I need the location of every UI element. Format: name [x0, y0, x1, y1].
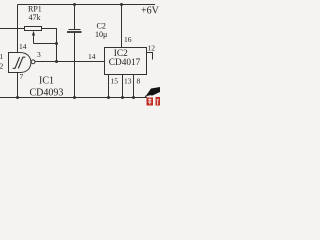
node output junction [55, 60, 58, 63]
gate IC1 CD4093 schmitt NAND [9, 53, 36, 73]
svg-text:47k: 47k [29, 13, 41, 22]
node dots [16, 3, 135, 99]
wire IC2 pin12 stub [147, 53, 153, 60]
node C2 top [73, 3, 76, 6]
wire IC2 pin13 to ground [122, 75, 124, 98]
wire wiper to node [34, 43, 57, 45]
svg-text:2: 2 [0, 62, 4, 71]
svg-text:14: 14 [19, 42, 27, 51]
IC2 CD4017 box [105, 48, 147, 75]
svg-text:+6V: +6V [141, 6, 160, 17]
wire ground bottom rail [0, 97, 147, 99]
svg-text:13: 13 [124, 77, 132, 86]
svg-text:8: 8 [137, 77, 141, 86]
svg-text:3: 3 [37, 50, 41, 59]
node pin7 ground [16, 96, 19, 99]
wire IC2 pin8 to ground [133, 75, 135, 98]
wire +6V top rail [18, 4, 156, 6]
wire RP1 right terminal [42, 29, 57, 62]
svg-text:1: 1 [0, 52, 4, 61]
svg-text:CD4017: CD4017 [109, 58, 141, 68]
wire IC2 pin15 to ground [108, 75, 110, 98]
wire RP1 left terminal [0, 28, 25, 30]
svg-text:16: 16 [124, 35, 132, 44]
wire IC1 pin14 to +6V rail [17, 5, 19, 53]
svg-text:15: 15 [111, 77, 119, 86]
node C2 ground [73, 96, 76, 99]
wire RP1 wiper [33, 35, 35, 44]
wiper arrowhead [32, 31, 35, 36]
node wiper junction [55, 42, 58, 45]
wire IC2 pin16 to +6V rail [121, 5, 123, 48]
watermark logo [145, 87, 160, 106]
node pin13 ground [121, 96, 124, 99]
resistor RP1 body [25, 27, 42, 31]
svg-text:12: 12 [148, 44, 156, 53]
schmitt hysteresis symbol [13, 57, 26, 68]
node pin8 ground [132, 96, 135, 99]
svg-text:CD4093: CD4093 [30, 88, 64, 99]
svg-text:10μ: 10μ [95, 30, 107, 39]
node pin15 ground [107, 96, 110, 99]
capacitor C2 plates [69, 29, 81, 31]
svg-text:14: 14 [88, 52, 96, 61]
wire C2 top lead [74, 5, 76, 30]
wire NAND output to IC2 pin14 [35, 61, 105, 63]
svg-text:IC1: IC1 [39, 76, 54, 87]
svg-text:7: 7 [20, 72, 24, 81]
node pin16 top [120, 3, 123, 6]
wire IC1 pin7 to ground [17, 73, 19, 98]
wire C2 bottom lead [74, 33, 76, 98]
